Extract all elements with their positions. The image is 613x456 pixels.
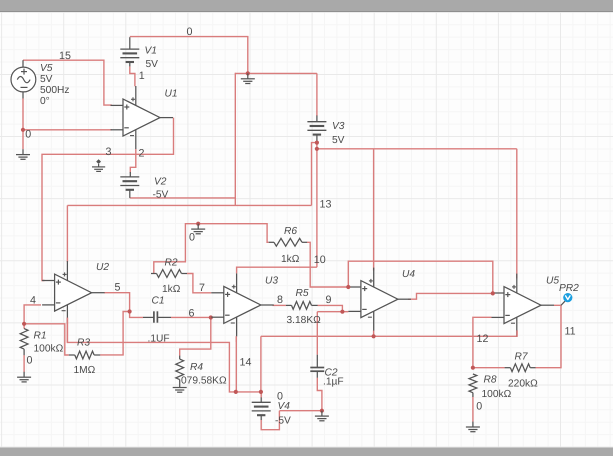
svg-text:10: 10 <box>314 254 326 266</box>
wire net 4: R1 top to U2 -in and R3 left <box>24 305 41 329</box>
svg-text:0: 0 <box>189 232 195 244</box>
battery V2 <box>129 172 131 177</box>
resistor R6 <box>269 241 274 243</box>
resistor R2 <box>151 273 157 275</box>
svg-text:5V: 5V <box>332 135 345 146</box>
op-amp U3 <box>224 286 261 323</box>
svg-text:8: 8 <box>277 294 283 306</box>
svg-text:7: 7 <box>199 282 205 294</box>
resistor R7 <box>505 367 511 369</box>
wire net 6: C1 right to U3 -in to R4 <box>171 316 211 318</box>
svg-text:0: 0 <box>27 355 33 367</box>
svg-text:R2: R2 <box>165 258 178 269</box>
ground (C2/V4) <box>320 409 324 413</box>
op-amp U5 <box>504 287 541 324</box>
svg-text:4: 4 <box>30 295 36 307</box>
svg-text:V5: V5 <box>40 63 53 74</box>
svg-text:V3: V3 <box>332 121 345 132</box>
wire: U4 +in junction up and over to U5 +in <box>348 261 493 293</box>
svg-text:2: 2 <box>139 148 145 160</box>
wire: U2 out junction to R3 right <box>100 312 130 355</box>
svg-text:R8: R8 <box>484 375 497 386</box>
svg-text:3.18KΩ: 3.18KΩ <box>287 315 322 326</box>
svg-text:12: 12 <box>477 333 489 345</box>
wire net 5: U2 out to C1 left <box>104 293 143 318</box>
unconnected ground marker below node 3 wire <box>96 159 101 164</box>
wire net 0: V5 bottom to U1 -in <box>22 98 24 130</box>
svg-text:U5: U5 <box>546 276 559 287</box>
capacitor C2 <box>316 355 318 368</box>
svg-text:1kΩ: 1kΩ <box>281 254 300 265</box>
node (V3 junctions) <box>315 141 319 145</box>
svg-text:100kΩ: 100kΩ <box>34 344 64 355</box>
battery V3 <box>316 116 318 122</box>
svg-text:.1µF: .1µF <box>323 377 344 388</box>
wire: C2 bottom to ground and V4 bottom <box>317 378 322 411</box>
ground (R8) <box>472 422 474 427</box>
svg-text:R3: R3 <box>77 338 90 349</box>
capacitor C1 <box>143 316 154 318</box>
svg-text:U4: U4 <box>402 269 415 280</box>
wire overlay U5 V- <box>516 330 518 337</box>
wire net 0 to V3 top <box>316 73 318 116</box>
svg-text:R1: R1 <box>34 331 47 342</box>
svg-text:1MΩ: 1MΩ <box>74 365 96 376</box>
wire: V3 bottom distribution <box>316 141 318 267</box>
wire: R8 bottom to ground <box>472 397 474 422</box>
svg-text:1kΩ: 1kΩ <box>162 284 181 295</box>
svg-text:5V: 5V <box>40 74 53 85</box>
svg-text:220kΩ: 220kΩ <box>508 379 538 390</box>
wire net 11: U5 out to R7 right <box>535 305 561 367</box>
wire net 9: R5 right to U4 -in and C2 <box>318 305 343 311</box>
ground (R4) <box>179 382 181 387</box>
svg-text:9: 9 <box>326 294 332 306</box>
AC source V5 <box>11 67 36 92</box>
top toolbar strip <box>0 0 613 12</box>
svg-text:R4: R4 <box>190 362 203 373</box>
svg-text:0: 0 <box>25 128 31 140</box>
svg-text:U3: U3 <box>265 276 278 287</box>
svg-text:079.58KΩ: 079.58KΩ <box>181 376 227 387</box>
svg-text:V1: V1 <box>145 46 157 57</box>
ground (R1) <box>23 372 25 377</box>
svg-text:V4: V4 <box>278 401 291 412</box>
wire: U4 output to U5 +in junction <box>408 293 493 299</box>
op-amp U1 <box>123 99 160 136</box>
wire: U4 V- pin to rail <box>373 331 375 337</box>
wire net 0: V1 top to ground junction to V3 top <box>130 37 248 74</box>
bottom status strip <box>0 448 613 456</box>
probe PR2 <box>561 301 565 305</box>
wire: V- rail (V4 top) <box>261 335 517 337</box>
svg-text:U1: U1 <box>165 89 178 100</box>
svg-text:15: 15 <box>59 50 71 62</box>
svg-text:5V: 5V <box>146 59 159 70</box>
svg-text:V2: V2 <box>154 177 167 188</box>
wire net 15: V5 to U1 +in <box>23 60 112 105</box>
wire net 1: V1 bottom to U1 V+ pin <box>130 66 135 86</box>
svg-text:-5V: -5V <box>275 416 291 427</box>
battery V4 <box>260 397 262 402</box>
svg-text:6: 6 <box>189 308 195 320</box>
svg-text:U2: U2 <box>96 262 109 273</box>
svg-text:5: 5 <box>115 282 121 294</box>
svg-text:0°: 0° <box>40 96 50 107</box>
resistor R5 <box>286 304 292 306</box>
resistor R8 <box>471 366 475 370</box>
wire: R1 bottom to ground <box>23 355 25 372</box>
svg-text:R5: R5 <box>296 288 309 299</box>
svg-text:11: 11 <box>565 326 576 338</box>
wire net 3/2: U1 output to U2 +in <box>42 118 174 281</box>
wire net 13: V2 bottom rail <box>130 197 236 199</box>
ground (net 0 top) <box>246 71 250 75</box>
wire net 14: U3 V- pin down to V4 junction <box>235 336 237 392</box>
resistor R3 <box>69 354 75 356</box>
wire net 0: R2 left loop to ground and R6 <box>154 224 269 274</box>
svg-text:C1: C1 <box>152 296 165 307</box>
wire: U2 V- pin rail to V4 junction <box>66 318 68 343</box>
resistor R4 <box>176 359 184 380</box>
svg-text:3: 3 <box>106 146 112 158</box>
wire net 10: R6 right to U4 +in <box>307 242 348 287</box>
svg-text:R7: R7 <box>515 352 528 363</box>
wire net 8: U3 out to R5 <box>273 304 286 306</box>
svg-text:.1UF: .1UF <box>148 334 170 345</box>
ground (V5) <box>22 149 24 154</box>
ground (R2 loop, net 0) <box>196 222 200 226</box>
wire: U1 V- pin to V2 top <box>130 149 136 173</box>
op-amp U4 <box>361 281 398 318</box>
node 0 (V5) <box>21 128 25 132</box>
op-amp U2 <box>55 274 92 311</box>
svg-text:500Hz: 500Hz <box>40 85 69 96</box>
svg-text:0: 0 <box>187 26 193 38</box>
svg-text:R6: R6 <box>284 226 297 237</box>
wire net 7: R2 right to U3 +in <box>187 274 211 293</box>
wire overlay U3 V- <box>235 336 237 342</box>
svg-text:1: 1 <box>139 70 145 82</box>
wire overlay U2 V- <box>66 318 68 344</box>
svg-text:-5V: -5V <box>153 190 169 201</box>
svg-text:100kΩ: 100kΩ <box>482 389 512 400</box>
resistor R1 <box>22 322 26 326</box>
svg-text:14: 14 <box>240 357 252 369</box>
svg-text:PR2: PR2 <box>559 283 579 294</box>
wire net 12: R7/R8 junction to U5 -in <box>473 317 492 367</box>
svg-text:0: 0 <box>476 401 482 413</box>
svg-text:0: 0 <box>277 391 283 403</box>
svg-text:13: 13 <box>320 199 332 211</box>
battery V1 <box>129 37 131 49</box>
